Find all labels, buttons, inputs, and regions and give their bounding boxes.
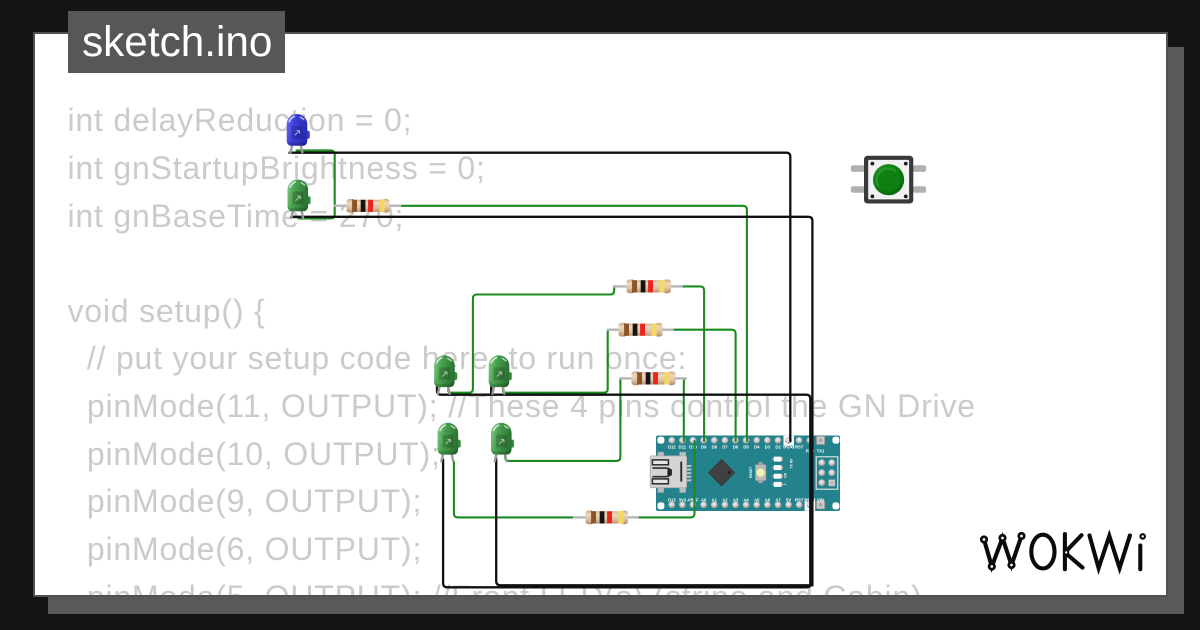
- svg-text:A0: A0: [701, 497, 707, 502]
- bottom pin row: [668, 502, 813, 509]
- pin labels bottom: [668, 497, 824, 502]
- LED1 blue: [287, 114, 310, 153]
- svg-text:ON: ON: [783, 472, 787, 478]
- wire green: R1 right to Nano D5: [400, 206, 747, 441]
- svg-text:TX RX: TX RX: [789, 458, 793, 469]
- LED4 green: [489, 355, 512, 394]
- svg-text:D10: D10: [689, 444, 697, 449]
- faded source code text: [68, 97, 976, 621]
- svg-text:A2: A2: [722, 497, 728, 502]
- svg-text:3V3: 3V3: [679, 497, 687, 502]
- svg-text:A1: A1: [712, 497, 718, 502]
- resistors: [335, 199, 686, 525]
- wire black: LED5 cathode to bottom bus to Nano GND bottom: [443, 460, 811, 588]
- svg-text:A7: A7: [775, 497, 781, 502]
- svg-text:GND: GND: [784, 444, 793, 449]
- wire green: R4 right to Nano D11: [684, 378, 686, 441]
- svg-text:D9: D9: [701, 444, 707, 449]
- svg-text:5V: 5V: [786, 497, 791, 502]
- top pin row: [668, 437, 813, 444]
- wire green: blue LED anode to green LED anode bus: [297, 150, 335, 218]
- WOKWI logo: [980, 532, 1146, 571]
- MCU chip (diamond): [708, 459, 734, 485]
- wire green: R3 left to LED4 anode: [503, 330, 609, 393]
- svg-text:D7: D7: [722, 444, 728, 449]
- LED5 green: [438, 423, 461, 462]
- wire green: R2 right to Nano D9: [682, 286, 705, 441]
- LED2 green: [288, 180, 311, 219]
- wire green: R3 right to Nano D6: [673, 330, 736, 441]
- wire green: R2 left to LED3 anode: [448, 286, 614, 392]
- USB connector: [650, 452, 691, 492]
- pushbutton SW1: [851, 156, 926, 204]
- svg-text:A6: A6: [765, 497, 771, 502]
- svg-text:VIN: VIN: [817, 497, 824, 502]
- wire green: R5 right to Nano D10: [638, 441, 695, 517]
- svg-text:D4: D4: [754, 444, 760, 449]
- GND pin white boxes: [784, 436, 794, 449]
- svg-text:D8: D8: [712, 444, 718, 449]
- reset button: [749, 462, 766, 483]
- Arduino Nano U1: [650, 436, 840, 512]
- svg-text:TX1: TX1: [817, 449, 825, 454]
- svg-text:L: L: [783, 483, 787, 485]
- resistor R1: [335, 199, 400, 213]
- svg-text:D11: D11: [679, 444, 687, 449]
- nano board body: [656, 436, 840, 512]
- ICSP header: [816, 457, 838, 489]
- resistor R4: [620, 371, 685, 385]
- pin labels top: [668, 444, 804, 449]
- wire black: green LED cathode to right bus down: [291, 217, 812, 586]
- resistor R3: [608, 323, 673, 337]
- svg-text:D3: D3: [765, 444, 771, 449]
- wire green: R4 left to LED6 anode: [505, 378, 620, 461]
- svg-text:A3: A3: [733, 497, 739, 502]
- svg-text:RST: RST: [795, 444, 804, 449]
- svg-text:D12: D12: [668, 444, 676, 449]
- nano corner holes: [657, 437, 664, 444]
- svg-text:D2: D2: [775, 444, 781, 449]
- wire black: blue LED cathode to Nano GND top: [290, 153, 791, 441]
- wire black: LED3 cathode bus to right vertical: [437, 387, 810, 585]
- wire black: LED6 cathode to bottom bus: [496, 459, 811, 586]
- indicator LEDs TX RX ON L: [773, 457, 794, 487]
- resistor R5: [574, 510, 638, 524]
- svg-text:D5: D5: [743, 444, 749, 449]
- TX1 / VIN square pads: [817, 436, 825, 444]
- LED6 green: [491, 423, 514, 462]
- LED3 green: [434, 355, 457, 394]
- svg-text:A5: A5: [754, 497, 760, 502]
- LEDs: [287, 114, 514, 461]
- wire black: LED4 cathode stub: [490, 387, 492, 395]
- svg-text:D13: D13: [668, 497, 676, 502]
- svg-text:RESET: RESET: [749, 467, 753, 478]
- svg-text:RST: RST: [795, 497, 804, 502]
- resistor R2: [614, 279, 681, 293]
- svg-text:AREF: AREF: [687, 497, 699, 502]
- sketch.ino tab: [68, 11, 285, 73]
- svg-text:A4: A4: [743, 497, 749, 502]
- wire green: R5 left to LED5 anode: [454, 462, 574, 518]
- svg-text:D6: D6: [733, 444, 739, 449]
